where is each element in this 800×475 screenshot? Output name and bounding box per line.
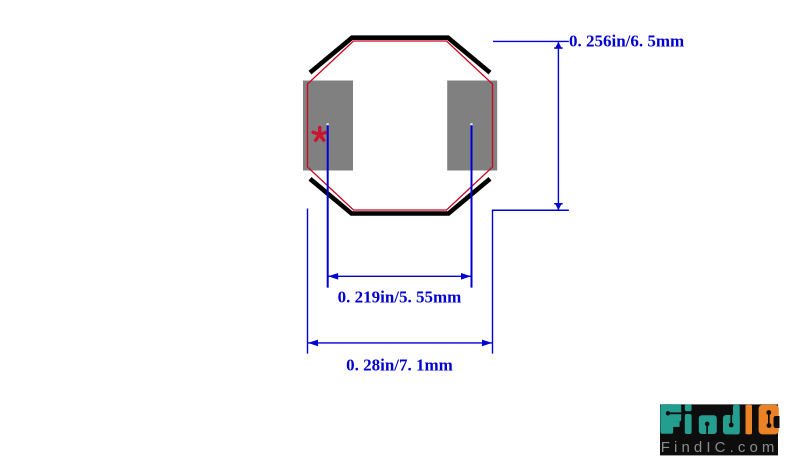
logo letter I (746, 405, 753, 435)
extension line from pad P2 center (471, 125, 473, 287)
courtyard outline red octagon (308, 41, 493, 210)
svg-text:0. 256in/6. 5mm: 0. 256in/6. 5mm (569, 32, 684, 51)
svg-text:0. 28in/7. 1mm: 0. 28in/7. 1mm (346, 356, 453, 375)
logo letter i (685, 404, 692, 434)
logo background (660, 404, 778, 455)
silkscreen outline bottom (black) (310, 179, 490, 214)
extension line top right (493, 40, 569, 42)
pad P2 center mark (470, 123, 472, 125)
logo letter F (660, 404, 681, 434)
extension line bottom right (492, 209, 569, 211)
pad P2 (right) (447, 81, 497, 171)
logo letter n (699, 415, 717, 434)
pad P1 center mark (327, 123, 329, 125)
logo letter C (759, 405, 779, 435)
dimension line overall height (554, 42, 562, 210)
svg-text:FindIC.com: FindIC.com (661, 439, 779, 456)
extension line outer left (307, 209, 309, 354)
pad P1 (left) (303, 81, 353, 171)
svg-text:0. 219in/5. 55mm: 0. 219in/5. 55mm (338, 288, 462, 307)
silkscreen outline top (black) (310, 38, 490, 73)
pin-1 marker asterisk (313, 127, 326, 140)
dimension line overall width (308, 340, 493, 347)
logo letter d (723, 405, 740, 435)
dimension line pad pitch (328, 273, 472, 280)
extension line outer right (492, 210, 494, 353)
extension line from pad P1 center (327, 125, 329, 287)
